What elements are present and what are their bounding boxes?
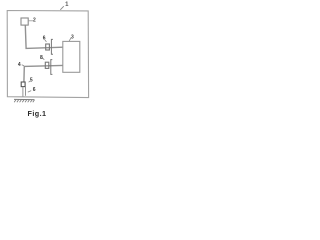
svg-text:Fig.1: Fig.1	[27, 109, 46, 118]
svg-text:4: 4	[18, 62, 21, 68]
svg-text:1: 1	[65, 2, 69, 8]
svg-text:2: 2	[33, 18, 36, 24]
svg-text:6: 6	[33, 87, 36, 93]
